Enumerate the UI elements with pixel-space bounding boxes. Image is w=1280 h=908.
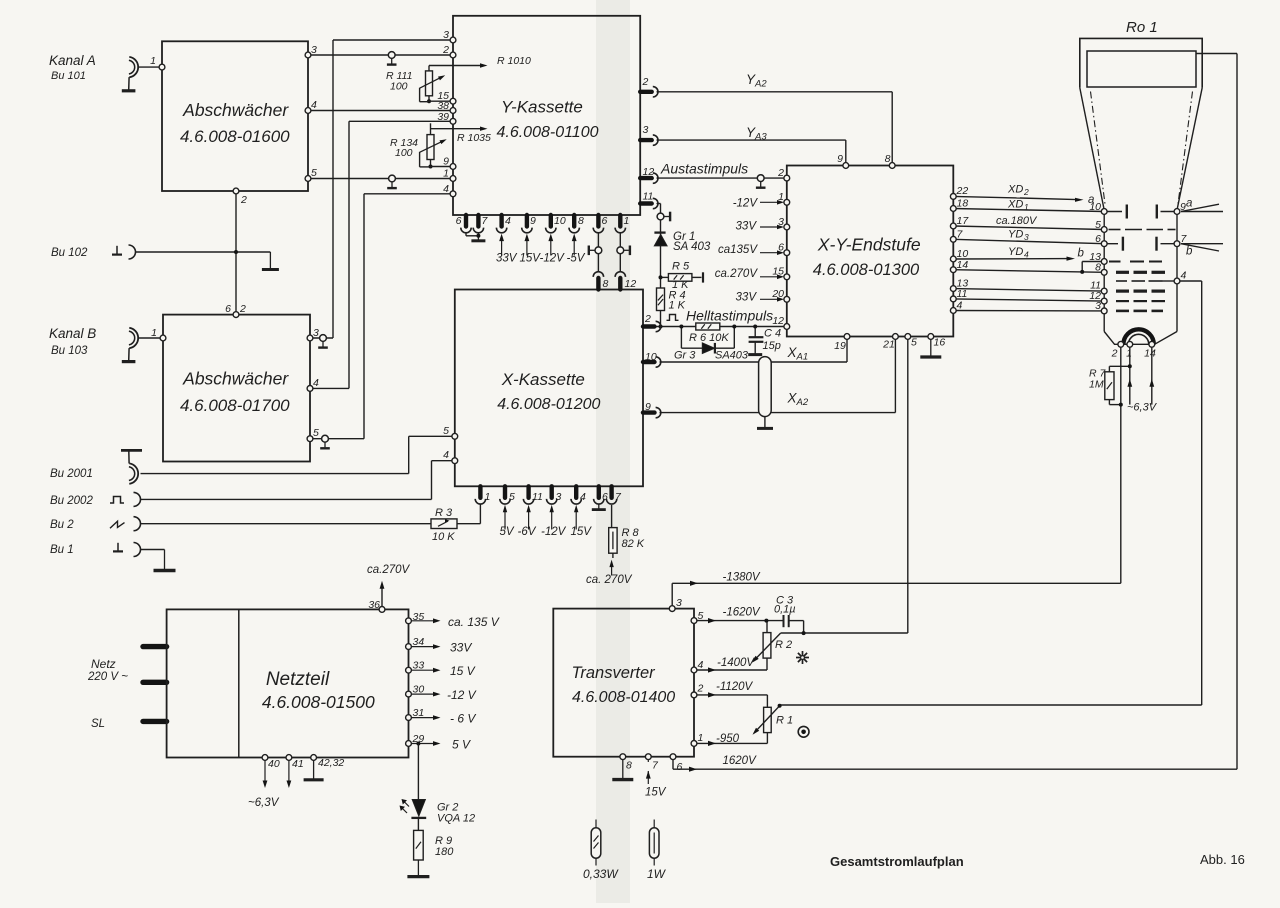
svg-text:-12V: -12V [733, 198, 759, 210]
svg-text:5: 5 [509, 491, 515, 503]
svg-text:VQA 12: VQA 12 [437, 813, 475, 825]
svg-text:-1400V: -1400V [717, 657, 755, 669]
svg-text:3: 3 [311, 44, 317, 56]
svg-text:18: 18 [957, 198, 969, 210]
svg-text:a: a [1088, 194, 1094, 206]
svg-text:XD: XD [1007, 199, 1023, 211]
svg-text:2: 2 [1023, 187, 1029, 197]
svg-text:3: 3 [443, 29, 449, 41]
svg-text:36: 36 [368, 599, 380, 611]
svg-text:Transverter: Transverter [572, 664, 657, 682]
svg-text:10: 10 [554, 215, 566, 227]
svg-text:15V: 15V [571, 526, 593, 538]
svg-text:4: 4 [957, 300, 963, 312]
svg-text:Abb. 16: Abb. 16 [1200, 852, 1245, 867]
svg-text:-1120V: -1120V [716, 681, 754, 693]
svg-text:3: 3 [778, 216, 784, 228]
svg-text:4.6.008-01400: 4.6.008-01400 [572, 689, 675, 706]
svg-text:C 4: C 4 [764, 328, 781, 340]
svg-text:4: 4 [1181, 270, 1187, 282]
svg-text:15V: 15V [645, 787, 667, 799]
svg-text:12: 12 [772, 315, 784, 327]
svg-text:19: 19 [834, 340, 846, 352]
svg-text:12: 12 [643, 166, 655, 178]
svg-text:Kanal A: Kanal A [49, 53, 96, 68]
svg-text:-1620V: -1620V [723, 607, 761, 619]
svg-text:Gesamtstromlaufplan: Gesamtstromlaufplan [830, 854, 964, 869]
svg-text:3: 3 [676, 597, 682, 609]
svg-text:31: 31 [413, 707, 425, 719]
svg-text:-12V: -12V [541, 526, 567, 538]
svg-text:1: 1 [150, 55, 156, 67]
svg-text:1: 1 [485, 491, 491, 503]
svg-text:5: 5 [311, 167, 317, 179]
svg-text:Netz: Netz [91, 657, 116, 671]
svg-text:2: 2 [1111, 348, 1118, 360]
svg-text:2: 2 [239, 303, 246, 315]
svg-text:X-Y-Endstufe: X-Y-Endstufe [817, 235, 921, 255]
svg-text:6: 6 [225, 303, 231, 315]
svg-text:8: 8 [626, 760, 632, 772]
svg-text:R 1010: R 1010 [497, 55, 531, 67]
svg-text:-12 V: -12 V [447, 688, 477, 702]
svg-text:4.6.008-01300: 4.6.008-01300 [813, 261, 920, 279]
svg-text:6: 6 [778, 242, 784, 254]
svg-text:1: 1 [1024, 202, 1029, 212]
svg-text:35: 35 [413, 611, 425, 623]
svg-text:15 V: 15 V [450, 664, 476, 678]
svg-text:220 V ~: 220 V ~ [87, 671, 128, 683]
svg-text:15p: 15p [763, 340, 781, 352]
svg-text:39: 39 [437, 111, 449, 123]
svg-text:R 2: R 2 [775, 639, 792, 651]
svg-text:17: 17 [957, 215, 970, 227]
svg-text:4: 4 [580, 491, 586, 503]
svg-text:14: 14 [1144, 348, 1156, 360]
svg-text:3: 3 [1024, 232, 1029, 242]
svg-text:-6V: -6V [518, 526, 537, 538]
svg-text:0,33W: 0,33W [583, 867, 619, 881]
svg-text:4: 4 [698, 659, 704, 671]
svg-text:8: 8 [1095, 262, 1101, 274]
svg-text:ca. 135 V: ca. 135 V [448, 615, 500, 629]
svg-text:8: 8 [603, 278, 609, 290]
svg-text:1: 1 [698, 732, 704, 744]
svg-text:Bu 1: Bu 1 [50, 544, 74, 556]
svg-text:1 K: 1 K [669, 300, 686, 312]
svg-text:- 6 V: - 6 V [450, 712, 476, 726]
svg-text:1: 1 [778, 191, 784, 203]
svg-text:100: 100 [395, 147, 413, 159]
svg-text:2: 2 [442, 44, 449, 56]
svg-text:1620V: 1620V [723, 755, 758, 767]
svg-text:5: 5 [698, 610, 704, 622]
svg-text:ca. 270V: ca. 270V [586, 574, 633, 586]
svg-text:33V: 33V [736, 221, 758, 233]
svg-text:9: 9 [837, 153, 843, 165]
svg-text:-950: -950 [716, 733, 740, 745]
svg-text:~6,3V: ~6,3V [1127, 402, 1158, 414]
svg-text:3: 3 [643, 124, 649, 136]
svg-text:3: 3 [556, 491, 562, 503]
svg-text:6: 6 [602, 491, 608, 503]
svg-text:4: 4 [505, 215, 511, 227]
svg-text:Bu 2002: Bu 2002 [50, 495, 93, 507]
svg-text:2: 2 [644, 313, 651, 325]
svg-text:22: 22 [956, 185, 969, 197]
svg-text:Helltastimpuls: Helltastimpuls [686, 308, 773, 324]
svg-text:5: 5 [911, 337, 917, 349]
svg-text:6: 6 [602, 215, 608, 227]
svg-text:5V: 5V [500, 526, 515, 538]
svg-text:Bu 103: Bu 103 [51, 345, 88, 357]
svg-text:5: 5 [1095, 219, 1101, 231]
svg-text:b: b [1078, 248, 1085, 260]
svg-text:YD: YD [1008, 229, 1023, 241]
svg-text:4.6.008-01500: 4.6.008-01500 [262, 692, 375, 712]
svg-text:15: 15 [772, 266, 784, 278]
svg-text:10 K: 10 K [432, 531, 455, 543]
svg-text:10: 10 [645, 351, 657, 363]
svg-text:Ro 1: Ro 1 [1126, 19, 1158, 36]
svg-text:Abschwächer: Abschwächer [182, 369, 289, 389]
svg-text:4: 4 [443, 183, 449, 195]
svg-text:21: 21 [882, 339, 895, 351]
svg-text:2: 2 [697, 683, 704, 695]
svg-text:3: 3 [1095, 300, 1101, 312]
svg-text:0,1µ: 0,1µ [774, 604, 796, 616]
svg-text:~6,3V: ~6,3V [248, 797, 280, 809]
svg-text:SA 403: SA 403 [673, 241, 711, 253]
svg-text:82 K: 82 K [622, 538, 645, 550]
svg-text:R 3: R 3 [435, 507, 453, 519]
svg-text:Bu 102: Bu 102 [51, 247, 88, 259]
svg-text:1: 1 [1126, 348, 1132, 360]
svg-text:33V: 33V [736, 292, 758, 304]
svg-text:12: 12 [625, 278, 637, 290]
svg-text:R 6 10K: R 6 10K [689, 332, 729, 344]
svg-text:ca.270V: ca.270V [715, 268, 759, 280]
svg-text:4: 4 [1024, 250, 1029, 260]
svg-text:30: 30 [413, 684, 425, 696]
svg-text:33V: 33V [496, 253, 518, 265]
svg-text:11: 11 [643, 191, 654, 203]
svg-text:ca.180V: ca.180V [996, 215, 1038, 227]
svg-text:9: 9 [645, 401, 651, 413]
svg-text:Kanal B: Kanal B [49, 326, 96, 341]
svg-text:Austastimpuls: Austastimpuls [660, 161, 748, 177]
svg-text:16: 16 [934, 337, 946, 349]
svg-text:YD: YD [1008, 246, 1023, 258]
svg-text:6: 6 [456, 215, 462, 227]
svg-text:33: 33 [413, 660, 425, 672]
svg-text:11: 11 [957, 288, 968, 300]
svg-text:5: 5 [443, 425, 449, 437]
svg-text:34: 34 [413, 636, 425, 648]
svg-text:1M: 1M [1089, 379, 1104, 391]
svg-text:5: 5 [313, 427, 319, 439]
svg-text:Gr 3: Gr 3 [674, 350, 696, 362]
svg-text:100: 100 [390, 81, 408, 93]
svg-text:4: 4 [311, 99, 317, 111]
svg-text:Bu 2: Bu 2 [50, 519, 74, 531]
svg-text:6: 6 [1095, 233, 1101, 245]
svg-text:4.6.008-01100: 4.6.008-01100 [496, 124, 598, 141]
svg-text:20: 20 [771, 288, 784, 300]
svg-text:2: 2 [240, 194, 247, 206]
svg-text:9: 9 [530, 215, 536, 227]
svg-text:42,32: 42,32 [318, 757, 344, 769]
svg-text:4: 4 [313, 377, 319, 389]
svg-text:1: 1 [443, 168, 449, 180]
svg-text:1: 1 [624, 215, 630, 227]
svg-text:1: 1 [151, 327, 157, 339]
svg-text:4.6.008-01700: 4.6.008-01700 [180, 396, 290, 415]
svg-text:5 V: 5 V [452, 738, 471, 752]
svg-text:-12V: -12V [540, 253, 566, 265]
svg-text:Bu 2001: Bu 2001 [50, 468, 93, 480]
svg-text:ca.270V: ca.270V [367, 564, 411, 576]
svg-text:33V: 33V [450, 641, 472, 655]
svg-text:XD: XD [1007, 184, 1023, 196]
svg-text:1W: 1W [647, 867, 667, 881]
svg-text:15V: 15V [520, 253, 542, 265]
svg-text:11: 11 [532, 491, 543, 503]
svg-text:Bu 101: Bu 101 [51, 70, 86, 82]
svg-text:8: 8 [578, 215, 584, 227]
svg-text:4.6.008-01600: 4.6.008-01600 [180, 127, 290, 146]
svg-text:9: 9 [443, 156, 449, 168]
svg-text:Y-Kassette: Y-Kassette [501, 98, 583, 117]
svg-text:2: 2 [777, 167, 784, 179]
svg-text:b: b [1186, 246, 1193, 258]
svg-text:R 1: R 1 [776, 715, 793, 727]
svg-text:X-Kassette: X-Kassette [501, 370, 585, 389]
svg-text:2: 2 [642, 76, 649, 88]
svg-text:ca135V: ca135V [718, 244, 758, 256]
svg-text:-1380V: -1380V [723, 572, 761, 584]
svg-text:14: 14 [957, 259, 969, 271]
svg-text:4.6.008-01200: 4.6.008-01200 [497, 396, 600, 413]
svg-text:Netzteil: Netzteil [266, 669, 330, 690]
svg-text:a: a [1186, 198, 1192, 210]
svg-text:41: 41 [292, 758, 304, 770]
svg-text:6: 6 [677, 761, 683, 773]
svg-text:Abschwächer: Abschwächer [182, 100, 289, 120]
svg-text:R 1035: R 1035 [457, 132, 491, 144]
svg-text:8: 8 [885, 153, 891, 165]
svg-text:3: 3 [313, 327, 319, 339]
svg-text:4: 4 [443, 449, 449, 461]
svg-text:40: 40 [268, 758, 280, 770]
svg-text:R 5: R 5 [672, 261, 690, 273]
svg-text:-5V: -5V [567, 253, 586, 265]
svg-text:SA403: SA403 [715, 350, 749, 362]
svg-text:SL: SL [91, 718, 105, 730]
svg-text:180: 180 [435, 846, 454, 858]
svg-text:29: 29 [412, 733, 425, 745]
